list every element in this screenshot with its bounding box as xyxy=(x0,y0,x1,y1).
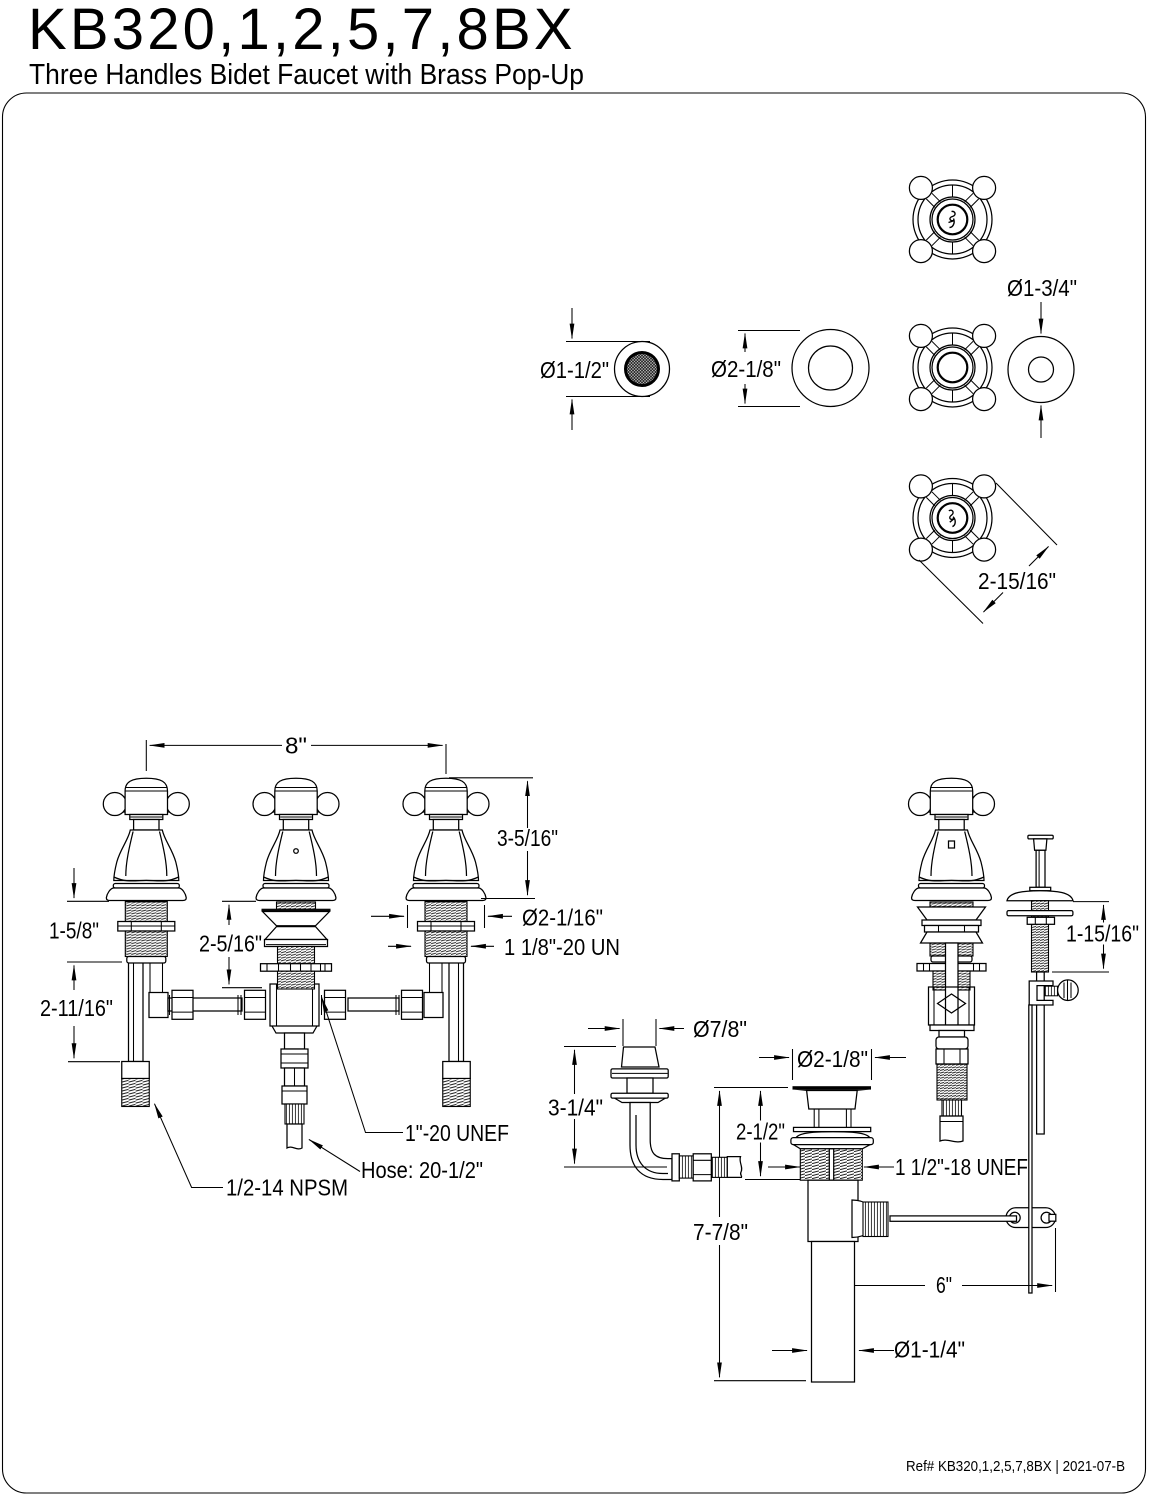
svg-text:2-1/2": 2-1/2" xyxy=(736,1119,785,1145)
svg-text:1 1/2"-18 UNEF: 1 1/2"-18 UNEF xyxy=(895,1154,1028,1180)
svg-text:Three Handles Bidet Faucet wit: Three Handles Bidet Faucet with Brass Po… xyxy=(29,59,584,91)
svg-text:7-7/8": 7-7/8" xyxy=(693,1219,748,1245)
svg-text:2-5/16": 2-5/16" xyxy=(199,931,262,957)
svg-text:3-5/16": 3-5/16" xyxy=(497,825,558,851)
svg-text:6": 6" xyxy=(936,1272,952,1298)
svg-text:Ø7/8": Ø7/8" xyxy=(693,1016,747,1042)
svg-text:Ø2-1/8": Ø2-1/8" xyxy=(711,356,781,382)
svg-text:KB320,1,2,5,7,8BX: KB320,1,2,5,7,8BX xyxy=(28,0,576,62)
svg-text:Hose: 20-1/2": Hose: 20-1/2" xyxy=(361,1157,483,1183)
svg-text:Ø2-1/16": Ø2-1/16" xyxy=(522,905,603,931)
svg-text:1 1/8"-20 UN: 1 1/8"-20 UN xyxy=(504,934,620,960)
svg-text:1-5/8": 1-5/8" xyxy=(49,918,99,944)
svg-text:Ref# KB320,1,2,5,7,8BX | 2021-: Ref# KB320,1,2,5,7,8BX | 2021-07-B xyxy=(906,1459,1125,1475)
svg-text:3-1/4": 3-1/4" xyxy=(548,1095,603,1121)
svg-text:Ø1-1/4": Ø1-1/4" xyxy=(894,1337,965,1363)
svg-text:1"-20 UNEF: 1"-20 UNEF xyxy=(405,1120,509,1146)
svg-text:8": 8" xyxy=(285,732,307,758)
svg-text:Ø2-1/8": Ø2-1/8" xyxy=(797,1046,868,1072)
svg-text:2-11/16": 2-11/16" xyxy=(40,995,113,1021)
svg-text:1-15/16": 1-15/16" xyxy=(1066,921,1139,947)
svg-text:Ø1-3/4": Ø1-3/4" xyxy=(1007,275,1077,301)
svg-text:2-15/16": 2-15/16" xyxy=(978,568,1056,594)
svg-text:Ø1-1/2": Ø1-1/2" xyxy=(540,357,609,383)
svg-text:1/2-14 NPSM: 1/2-14 NPSM xyxy=(226,1175,348,1201)
